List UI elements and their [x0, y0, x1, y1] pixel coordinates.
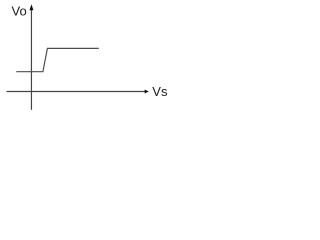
- y-axis (Vo axis): [30, 9, 32, 110]
- x-axis (Vs axis): [7, 91, 146, 93]
- svg-text:Vs: Vs: [152, 84, 168, 99]
- transfer curve: [16, 48, 99, 71]
- y-axis arrowhead: [29, 4, 33, 10]
- svg-text:Vo: Vo: [12, 4, 27, 19]
- x-axis arrowhead: [145, 90, 149, 94]
